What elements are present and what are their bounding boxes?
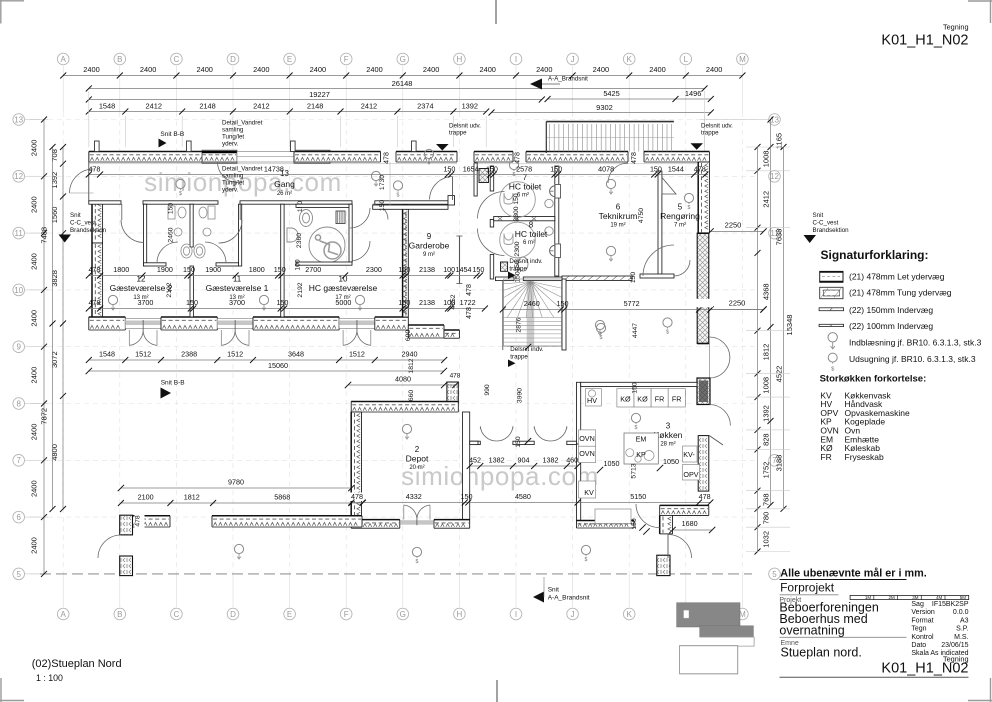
svg-text:2400: 2400 bbox=[30, 140, 39, 157]
svg-text:5868: 5868 bbox=[274, 493, 290, 502]
grid bubble 6 left bbox=[13, 511, 25, 523]
svg-text:2400: 2400 bbox=[253, 65, 269, 74]
HC guest bathroom shower unit bbox=[336, 211, 345, 224]
svg-text:1800: 1800 bbox=[113, 265, 129, 274]
grid bubble J bottom bbox=[567, 608, 579, 620]
grid bubble 5 left bbox=[13, 568, 25, 580]
grid bubble 9 left bbox=[13, 341, 25, 353]
svg-text:7872: 7872 bbox=[40, 408, 49, 425]
grid bubble 11 left bbox=[13, 227, 25, 239]
svg-text:Tung/let: Tung/let bbox=[222, 134, 244, 141]
svg-text:150: 150 bbox=[486, 165, 498, 174]
svg-text:$: $ bbox=[688, 205, 691, 211]
svg-text:1752: 1752 bbox=[762, 462, 771, 479]
svg-text:478: 478 bbox=[88, 165, 100, 174]
corridor inner face line right wing bbox=[474, 163, 697, 165]
grid bubble E top bbox=[284, 53, 296, 65]
svg-text:5772: 5772 bbox=[624, 299, 640, 308]
door arc rengoring bbox=[674, 260, 690, 276]
svg-text:150: 150 bbox=[183, 265, 195, 274]
door arc corridor east bbox=[430, 177, 453, 200]
svg-text:Sag: Sag bbox=[911, 601, 924, 608]
svg-text:2300: 2300 bbox=[514, 241, 521, 256]
svg-text:150: 150 bbox=[650, 165, 662, 174]
svg-text:150: 150 bbox=[472, 265, 484, 274]
garderobe south pier bbox=[447, 382, 458, 403]
dimension 9302 right bbox=[492, 112, 711, 114]
grid bubble I bottom bbox=[510, 608, 522, 620]
southwest door arc bbox=[98, 535, 121, 558]
HC guest bathroom walls bbox=[296, 204, 352, 207]
svg-text:1560: 1560 bbox=[50, 207, 59, 224]
svg-text:478: 478 bbox=[699, 492, 711, 501]
svg-text:S.P.: S.P. bbox=[956, 626, 968, 633]
depot south double door bbox=[401, 520, 434, 525]
right dimension chain inner bbox=[757, 147, 759, 552]
left dimension chain 7488/7872 bbox=[52, 147, 54, 509]
svg-text:L: L bbox=[684, 55, 689, 64]
grid bubble G top bbox=[397, 53, 409, 65]
svg-text:478: 478 bbox=[351, 492, 363, 501]
vent symbols bbox=[108, 295, 117, 304]
svg-text:150: 150 bbox=[398, 298, 410, 307]
north exterior wall segment C bbox=[396, 152, 457, 163]
svg-text:(22) 150mm Indervæg: (22) 150mm Indervæg bbox=[849, 305, 933, 315]
svg-text:150: 150 bbox=[630, 272, 637, 284]
svg-text:E: E bbox=[287, 610, 292, 619]
svg-text:13: 13 bbox=[14, 115, 23, 124]
HC toilet 7 fixtures bbox=[500, 182, 561, 218]
svg-text:150: 150 bbox=[550, 165, 562, 174]
grid bubble M bottom bbox=[737, 608, 749, 620]
svg-text:2138: 2138 bbox=[419, 298, 435, 307]
svg-text:HC toilet: HC toilet bbox=[509, 182, 542, 192]
svg-text:1512: 1512 bbox=[349, 350, 365, 359]
svg-text:2400: 2400 bbox=[649, 65, 665, 74]
svg-text:150: 150 bbox=[274, 265, 286, 274]
svg-text:26 m²: 26 m² bbox=[277, 191, 292, 197]
svg-text:4580: 4580 bbox=[515, 492, 531, 501]
svg-text:KØ: KØ bbox=[637, 395, 648, 404]
svg-text:13: 13 bbox=[770, 115, 779, 124]
svg-text:Skala: Skala bbox=[911, 650, 929, 657]
crop mark bottom left corner bbox=[0, 700, 24, 702]
svg-text:5425: 5425 bbox=[603, 89, 619, 98]
grid bubble 7 left bbox=[13, 455, 25, 467]
svg-text:2400: 2400 bbox=[706, 65, 722, 74]
grid bubble B bottom bbox=[114, 608, 126, 620]
svg-text:2400: 2400 bbox=[30, 196, 39, 213]
svg-text:9: 9 bbox=[16, 343, 21, 352]
svg-text:1800: 1800 bbox=[249, 265, 265, 274]
svg-text:Detail_Vandret: Detail_Vandret bbox=[222, 166, 263, 173]
svg-text:Tegning: Tegning bbox=[943, 23, 969, 32]
svg-text:2400: 2400 bbox=[366, 65, 382, 74]
key plan white step outline bbox=[680, 637, 755, 674]
legend symbol 150mm indervaeg bbox=[819, 308, 844, 311]
kitchen door stub south bbox=[657, 555, 670, 575]
svg-text:(02)Stueplan Nord: (02)Stueplan Nord bbox=[32, 658, 122, 670]
hall double door set 2 bbox=[534, 426, 550, 441]
svg-text:Teknikrum: Teknikrum bbox=[599, 211, 638, 221]
dimension 1680 bbox=[673, 529, 713, 531]
kitchen KV unit bbox=[579, 481, 596, 498]
grid bubble A bottom bbox=[57, 608, 69, 620]
right dimension chain outer 15348 bbox=[783, 147, 785, 509]
door arc guest room 2 bbox=[121, 204, 123, 220]
svg-text:1548: 1548 bbox=[99, 102, 115, 111]
svg-text:2400: 2400 bbox=[30, 253, 39, 270]
door arc guest room 1 bbox=[239, 204, 241, 220]
svg-text:150: 150 bbox=[379, 200, 386, 212]
svg-text:OPV: OPV bbox=[683, 470, 698, 479]
garderobe side door arc bbox=[373, 204, 389, 220]
svg-text:2250: 2250 bbox=[725, 221, 742, 230]
svg-text:5713: 5713 bbox=[631, 463, 638, 478]
door arc pod bathroom 1 bbox=[157, 242, 178, 263]
grid bubble B top bbox=[114, 53, 126, 65]
svg-text:2388: 2388 bbox=[181, 350, 197, 359]
svg-text:3700: 3700 bbox=[229, 298, 245, 307]
east tall window strip bbox=[697, 233, 709, 343]
legend symbol let ydervaeg bbox=[820, 271, 843, 282]
svg-text:1050: 1050 bbox=[663, 457, 679, 466]
svg-text:1454: 1454 bbox=[456, 265, 472, 274]
svg-text:Rengøring: Rengøring bbox=[660, 211, 700, 221]
interior stair bbox=[527, 281, 535, 347]
door arc teknikrum bbox=[643, 245, 674, 276]
grid bubble G bottom bbox=[397, 608, 409, 620]
svg-text:150: 150 bbox=[631, 382, 638, 394]
door arc HC toilet 7 bbox=[478, 192, 505, 219]
north exterior wall segment D2 bbox=[526, 152, 628, 163]
guest wing south double door 1 bbox=[126, 321, 160, 326]
dimension chain 1548..1392 bbox=[89, 111, 486, 113]
grid bubble K top bbox=[623, 53, 635, 65]
kitchen southwest wall (facade) bbox=[577, 521, 635, 529]
vestibule wall stub bbox=[474, 163, 477, 196]
svg-text:K: K bbox=[627, 610, 633, 619]
wall between guest room 1 and HC room bbox=[281, 204, 284, 317]
svg-text:3648: 3648 bbox=[288, 350, 304, 359]
key plan dark box 1 bbox=[677, 603, 740, 627]
svg-text:15348: 15348 bbox=[785, 315, 794, 336]
grid bubble D bottom bbox=[227, 608, 239, 620]
svg-text:J: J bbox=[571, 610, 575, 619]
garderobe south wall bbox=[408, 325, 444, 338]
svg-text:2148: 2148 bbox=[199, 102, 215, 111]
chimney block east bbox=[697, 378, 710, 405]
legend symbol 100mm indervaeg bbox=[819, 324, 844, 326]
grid bubble 5 right bbox=[769, 568, 781, 580]
vestibule hatched pier bbox=[479, 169, 489, 183]
svg-text:Depot: Depot bbox=[406, 454, 429, 464]
svg-text:3188: 3188 bbox=[775, 455, 784, 472]
svg-text:A: A bbox=[61, 55, 67, 64]
title scale bar bbox=[850, 595, 969, 599]
svg-text:Gæsteværelse 2: Gæsteværelse 2 bbox=[110, 283, 173, 293]
svg-text:HC toilet: HC toilet bbox=[515, 229, 548, 239]
halo rects for dim texts on walls bbox=[348, 493, 365, 502]
grid bubble L top bbox=[680, 53, 692, 65]
grid bubble J top bbox=[567, 53, 579, 65]
svg-text:$: $ bbox=[585, 557, 588, 563]
door arc rengoring north bbox=[608, 163, 628, 183]
svg-text:Delsnit udv.: Delsnit udv. bbox=[449, 123, 481, 130]
west exterior wall lower (let) bbox=[92, 243, 103, 317]
corridor south wall (guest wing) bbox=[89, 201, 121, 204]
svg-text:5: 5 bbox=[16, 570, 21, 579]
svg-text:2374: 2374 bbox=[417, 102, 433, 111]
svg-text:overnatning: overnatning bbox=[779, 623, 844, 637]
svg-text:2400: 2400 bbox=[30, 537, 39, 554]
svg-text:Snit B-B: Snit B-B bbox=[160, 131, 184, 138]
dimension 2250 upper right bbox=[711, 231, 764, 233]
bathroom pod 1 walls bbox=[144, 204, 147, 266]
svg-text:F: F bbox=[344, 55, 349, 64]
svg-text:14738: 14738 bbox=[264, 165, 284, 174]
svg-text:samling: samling bbox=[222, 127, 244, 134]
svg-text:2300: 2300 bbox=[513, 206, 520, 221]
south guest window 2 bbox=[217, 319, 253, 329]
legend symbol tung ydervaeg bbox=[820, 287, 843, 298]
svg-text:(22) 100mm Indervæg: (22) 100mm Indervæg bbox=[849, 321, 933, 331]
grid bubble 11 right bbox=[769, 227, 781, 239]
corridor east door leaf bbox=[452, 177, 454, 201]
guest wing south double door 2 bbox=[218, 321, 252, 326]
svg-text:Storkøkken forkortelse:: Storkøkken forkortelse: bbox=[820, 374, 927, 385]
svg-text:B: B bbox=[117, 610, 122, 619]
legend symbol udsugning bbox=[828, 353, 837, 362]
svg-text:2192: 2192 bbox=[166, 282, 173, 297]
svg-text:4080: 4080 bbox=[395, 375, 411, 384]
svg-text:2192: 2192 bbox=[297, 282, 304, 297]
extension lines top chain bbox=[88, 116, 90, 147]
dimension chain stair row bbox=[503, 309, 764, 311]
grid bubble 7 right bbox=[769, 455, 781, 467]
north wall detail box dashed 2 bbox=[294, 150, 330, 163]
svg-text:samling: samling bbox=[222, 173, 244, 180]
svg-text:1392: 1392 bbox=[462, 102, 478, 111]
svg-text:Brandsektion: Brandsektion bbox=[813, 227, 850, 234]
grid bubble 8 left bbox=[13, 398, 25, 410]
svg-text:2460: 2460 bbox=[524, 299, 540, 308]
dimension 5425 1496 right bbox=[548, 98, 711, 100]
svg-text:1496: 1496 bbox=[685, 89, 701, 98]
svg-text:K01_H1_N02: K01_H1_N02 bbox=[881, 660, 968, 676]
svg-text:1812: 1812 bbox=[184, 493, 200, 502]
crop mark top right corner bbox=[968, 0, 992, 2]
svg-text:K01_H1_N02: K01_H1_N02 bbox=[881, 33, 968, 49]
svg-text:Dato: Dato bbox=[911, 642, 926, 649]
kitchen KV- unit bbox=[683, 446, 698, 462]
svg-text:150: 150 bbox=[168, 203, 175, 215]
svg-text:$: $ bbox=[600, 335, 603, 341]
svg-text:I: I bbox=[515, 55, 517, 64]
svg-text:1512: 1512 bbox=[227, 350, 243, 359]
svg-text:10: 10 bbox=[14, 286, 23, 295]
dimension 478 sw wall vert bbox=[135, 512, 145, 531]
svg-text:780: 780 bbox=[762, 512, 771, 525]
svg-text:4750: 4750 bbox=[638, 208, 645, 223]
svg-text:1680: 1680 bbox=[682, 519, 698, 528]
hall south wall with double doors bbox=[470, 441, 481, 444]
svg-text:478: 478 bbox=[450, 373, 461, 380]
dimension chain guest wing row y271 bbox=[89, 275, 480, 277]
crop mark bottom center bbox=[496, 680, 498, 702]
svg-text:19227: 19227 bbox=[309, 90, 330, 99]
svg-text:452: 452 bbox=[469, 456, 481, 465]
svg-text:4078: 4078 bbox=[598, 165, 614, 174]
svg-text:478: 478 bbox=[383, 152, 390, 164]
svg-text:KP: KP bbox=[636, 450, 646, 459]
svg-text:2M: 2M bbox=[889, 595, 896, 600]
north exterior wall segment A bbox=[89, 152, 237, 163]
HC guest bathroom wheelchair symbol bbox=[315, 235, 341, 259]
svg-text:1654: 1654 bbox=[463, 165, 479, 174]
svg-text:1050: 1050 bbox=[604, 459, 620, 468]
svg-text:478: 478 bbox=[88, 265, 100, 274]
svg-text:A-A_Brandsnit: A-A_Brandsnit bbox=[548, 76, 588, 83]
svg-text:12: 12 bbox=[770, 172, 779, 181]
svg-text:trappe: trappe bbox=[701, 130, 719, 137]
svg-text:2578: 2578 bbox=[516, 165, 532, 174]
svg-text:26148: 26148 bbox=[392, 79, 413, 88]
dimension chain top interior y168 bbox=[89, 174, 706, 176]
svg-text:KV: KV bbox=[584, 488, 594, 497]
grid bubble A top bbox=[57, 53, 69, 65]
svg-text:Delsnit udv.: Delsnit udv. bbox=[701, 123, 733, 130]
wall stub chimneys on north wall bbox=[95, 141, 100, 152]
grid row line 13 right extension bbox=[700, 119, 770, 121]
grid bubble 12 left bbox=[13, 171, 25, 183]
svg-text:D: D bbox=[230, 55, 236, 64]
svg-text:2876: 2876 bbox=[515, 317, 522, 332]
dimension 4080 478 bbox=[348, 384, 456, 386]
crop mark top center bbox=[495, 0, 497, 24]
svg-text:Snit B-B: Snit B-B bbox=[161, 380, 185, 387]
kitchen south-west step wall bbox=[660, 515, 673, 534]
svg-text:990: 990 bbox=[484, 384, 491, 396]
north wall detail box dashed bbox=[202, 150, 237, 163]
svg-text:100: 100 bbox=[295, 259, 302, 271]
svg-text:Stueplan nord.: Stueplan nord. bbox=[781, 646, 862, 660]
svg-text:2400: 2400 bbox=[30, 367, 39, 384]
svg-text:$: $ bbox=[635, 425, 638, 431]
grid bubble D top bbox=[227, 53, 239, 65]
svg-text:4652: 4652 bbox=[450, 294, 457, 309]
garderobe east wall lower bbox=[444, 330, 459, 338]
svg-text:C: C bbox=[174, 610, 180, 619]
left dimension chain inner 708/1392/1560/3828/3072/4800 bbox=[62, 147, 64, 509]
svg-text:Format: Format bbox=[911, 617, 933, 624]
svg-text:A: A bbox=[61, 610, 67, 619]
svg-text:$: $ bbox=[179, 191, 182, 197]
kitchen southeast door arc bbox=[668, 535, 692, 559]
svg-text:2400: 2400 bbox=[593, 65, 609, 74]
garderobe rail/cabinet bbox=[459, 236, 461, 284]
kitchen north wall bbox=[581, 382, 697, 386]
svg-text:1M: 1M bbox=[865, 595, 872, 600]
kitchen OPV unit bbox=[683, 465, 700, 481]
HC guest bathroom fixtures bbox=[287, 210, 345, 264]
svg-text:4332: 4332 bbox=[406, 492, 422, 501]
svg-text:1165: 1165 bbox=[775, 133, 784, 149]
svg-text:Snit: Snit bbox=[548, 587, 559, 594]
kitchen bench bbox=[595, 509, 631, 524]
svg-text:2412: 2412 bbox=[253, 102, 269, 111]
west stub wall lower bbox=[120, 556, 133, 576]
svg-text:150: 150 bbox=[557, 299, 569, 308]
svg-text:2300: 2300 bbox=[366, 265, 382, 274]
svg-text:3990: 3990 bbox=[517, 388, 524, 403]
bathroom pod 1 fixtures bbox=[168, 206, 215, 258]
grid column lines A-M bbox=[62, 66, 64, 112]
svg-text:K: K bbox=[627, 55, 633, 64]
dimension row depot/kitchen 4332 etc bbox=[351, 502, 710, 504]
svg-text:1008: 1008 bbox=[762, 377, 771, 394]
svg-text:1900: 1900 bbox=[205, 265, 221, 274]
dimension row kitchen doors bbox=[470, 465, 578, 467]
svg-text:Tegn: Tegn bbox=[911, 626, 926, 633]
svg-text:600: 600 bbox=[405, 330, 412, 342]
stair landing wall bbox=[496, 277, 515, 281]
svg-text:1 : 100: 1 : 100 bbox=[36, 673, 63, 683]
svg-text:trappe: trappe bbox=[449, 130, 467, 137]
svg-text:OVN: OVN bbox=[579, 434, 595, 443]
wall between guest rooms 2 and 1 bbox=[190, 266, 193, 317]
svg-text:KØ: KØ bbox=[620, 395, 631, 404]
svg-text:E: E bbox=[287, 55, 292, 64]
svg-text:H: H bbox=[457, 55, 463, 64]
svg-text:(21) 478mm Tung ydervæg: (21) 478mm Tung ydervæg bbox=[849, 288, 952, 298]
crop mark bottom right corner bbox=[968, 700, 992, 702]
south guest window 3 bbox=[339, 319, 375, 329]
svg-text:2400: 2400 bbox=[30, 480, 39, 497]
svg-text:A-A_Brandsnit: A-A_Brandsnit bbox=[548, 595, 590, 602]
svg-text:1382: 1382 bbox=[543, 456, 559, 465]
south wall guest wing segment 2 bbox=[161, 317, 217, 330]
svg-text:4522: 4522 bbox=[775, 366, 784, 383]
svg-text:Brandsektion: Brandsektion bbox=[70, 227, 107, 234]
dimension 2250 lower right bbox=[711, 309, 764, 311]
corridor inner face line left wing bbox=[89, 163, 457, 165]
svg-text:100: 100 bbox=[443, 265, 455, 274]
svg-text:150: 150 bbox=[515, 436, 522, 448]
door arc pod bathroom 2 bbox=[205, 242, 226, 263]
east double door opening arcs bbox=[709, 337, 730, 358]
crop mark top left corner bbox=[0, 0, 24, 2]
svg-text:1032: 1032 bbox=[762, 531, 771, 548]
svg-text:150: 150 bbox=[513, 193, 520, 205]
key plan dark box 2 bbox=[700, 626, 754, 637]
svg-text:Fryseskab: Fryseskab bbox=[845, 452, 884, 462]
door arc HC toilet 8 bbox=[478, 229, 505, 256]
svg-text:478: 478 bbox=[135, 515, 142, 527]
svg-text:1008: 1008 bbox=[762, 151, 771, 168]
svg-text:460: 460 bbox=[566, 456, 578, 465]
svg-text:4M: 4M bbox=[936, 595, 943, 600]
svg-text:2400: 2400 bbox=[196, 65, 212, 74]
hall double door set 1 bbox=[480, 426, 496, 441]
svg-text:2400: 2400 bbox=[310, 65, 326, 74]
svg-text:19 m²: 19 m² bbox=[610, 223, 625, 229]
svg-text:478: 478 bbox=[631, 152, 638, 164]
svg-text:9 m²: 9 m² bbox=[423, 252, 435, 258]
svg-text:478: 478 bbox=[466, 307, 473, 319]
teknikrum-rengoring divider wall bbox=[658, 171, 662, 275]
HC toilets west wall bbox=[490, 166, 494, 191]
